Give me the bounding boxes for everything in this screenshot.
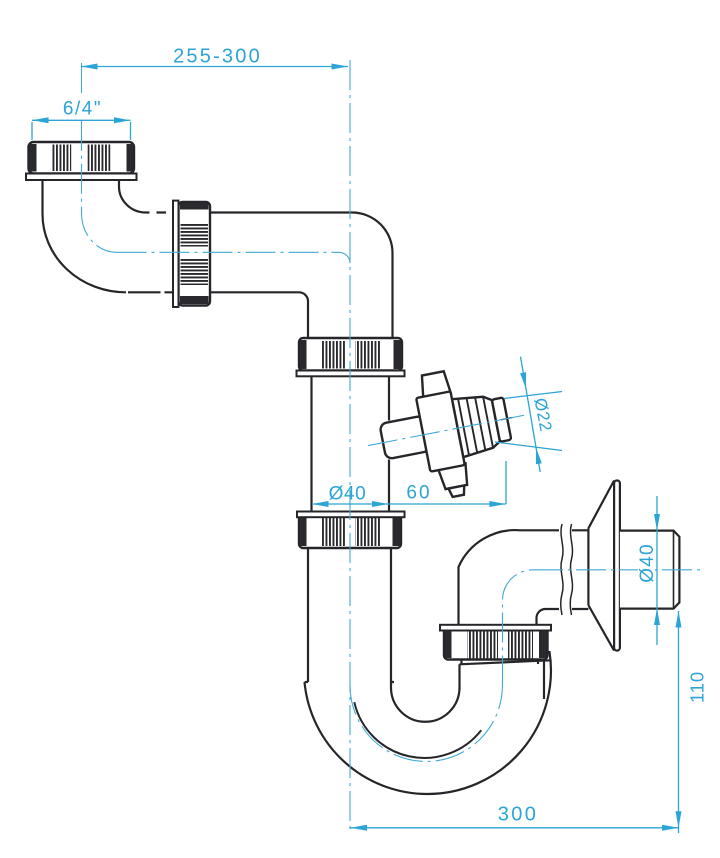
svg-text:110: 110 [687,671,708,703]
svg-text:255-300: 255-300 [173,46,262,68]
svg-text:60: 60 [406,483,431,504]
svg-text:Ø40: Ø40 [637,543,658,583]
svg-text:300: 300 [498,804,539,826]
svg-text:6/4": 6/4" [63,99,102,120]
svg-text:Ø40: Ø40 [329,484,367,505]
svg-text:Ø22: Ø22 [530,396,555,433]
